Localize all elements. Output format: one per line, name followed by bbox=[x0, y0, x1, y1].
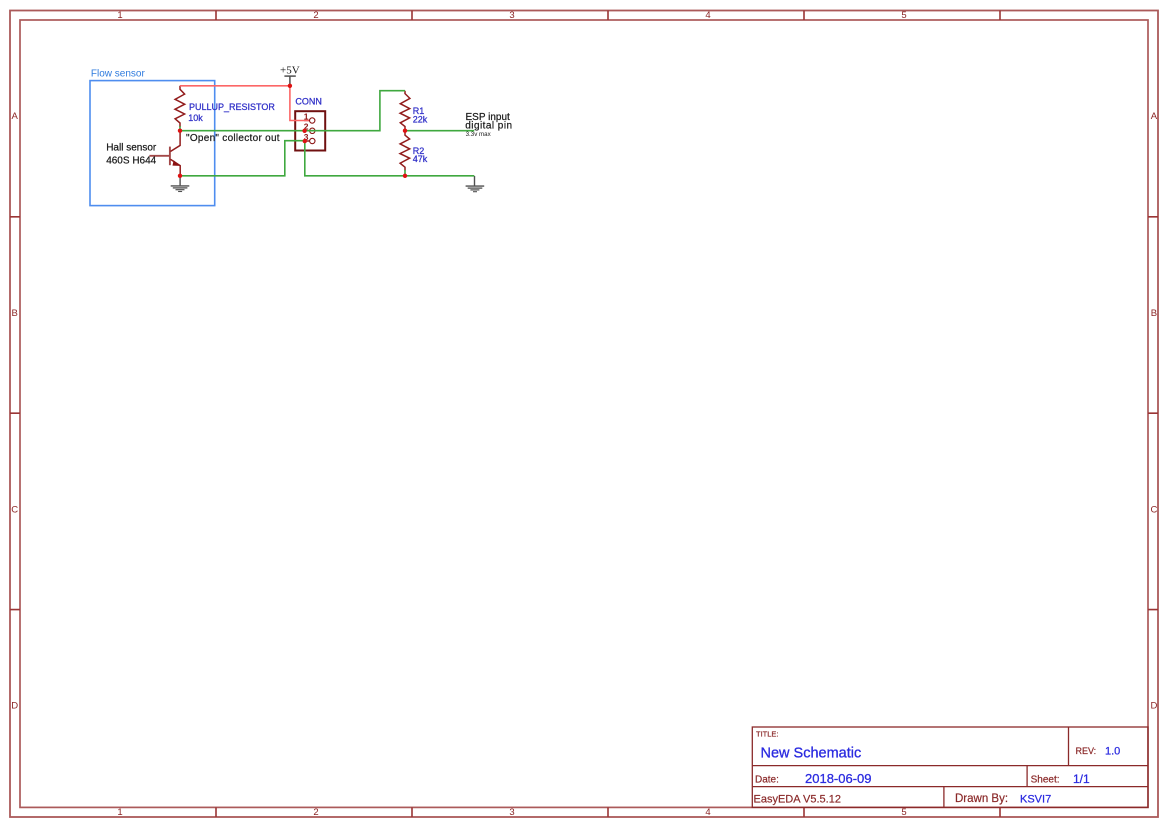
svg-text:2: 2 bbox=[313, 10, 318, 21]
column numbers bottom bbox=[117, 807, 906, 818]
connector CONN box bbox=[295, 111, 325, 150]
svg-text:B: B bbox=[1151, 308, 1157, 319]
wire divider junction to ESP pin bbox=[405, 130, 474, 132]
svg-text:3.3v max: 3.3v max bbox=[466, 131, 492, 138]
row letters right bbox=[1150, 111, 1157, 711]
resistor R2 47k bbox=[400, 131, 410, 171]
wire +5V rail (red) bbox=[180, 85, 290, 87]
wire stub pullup bottom to junction bbox=[179, 126, 181, 131]
svg-text:3: 3 bbox=[509, 10, 514, 21]
resistor PULLUP_RESISTOR 10k bbox=[175, 86, 185, 127]
svg-text:D: D bbox=[11, 700, 18, 711]
svg-text:D: D bbox=[1150, 700, 1157, 711]
wire +5V to pin1 (red) bbox=[290, 86, 309, 121]
svg-text:460S H644: 460S H644 bbox=[106, 156, 156, 167]
svg-text:A: A bbox=[12, 111, 19, 122]
junction dot pin3 bbox=[303, 139, 307, 143]
svg-text:3: 3 bbox=[509, 807, 514, 818]
row ticks right bbox=[1148, 217, 1158, 610]
svg-text:Date:: Date: bbox=[755, 775, 779, 786]
svg-text:2: 2 bbox=[313, 807, 318, 818]
column numbers top bbox=[117, 10, 906, 21]
wire net pin2 (collector to conn and up to R1 top) bbox=[180, 91, 405, 131]
svg-text:47k: 47k bbox=[413, 154, 428, 164]
svg-text:Drawn By:: Drawn By: bbox=[955, 793, 1008, 805]
column ticks top bbox=[216, 11, 1000, 21]
svg-text:1.0: 1.0 bbox=[1105, 745, 1120, 757]
svg-text:1: 1 bbox=[117, 807, 122, 818]
wire emitter to pin3 bbox=[180, 141, 305, 176]
svg-text:+5V: +5V bbox=[280, 65, 300, 77]
svg-text:REV:: REV: bbox=[1076, 746, 1097, 756]
svg-text:New Schematic: New Schematic bbox=[761, 745, 862, 761]
svg-text:1/1: 1/1 bbox=[1073, 772, 1090, 786]
svg-text:Sheet:: Sheet: bbox=[1031, 775, 1060, 786]
wire stub R2 bottom to junction bbox=[404, 170, 406, 176]
svg-text:Hall sensor: Hall sensor bbox=[106, 143, 157, 154]
svg-text:4: 4 bbox=[705, 807, 710, 818]
pin 2 bbox=[304, 122, 315, 134]
svg-text:EasyEDA V5.5.12: EasyEDA V5.5.12 bbox=[754, 794, 841, 806]
pin 1 bbox=[304, 111, 315, 123]
ground (emitter) bbox=[171, 178, 190, 192]
junction dot R2 bottom bbox=[403, 174, 407, 178]
column ticks bottom bbox=[216, 807, 1000, 817]
ground (right rail) bbox=[466, 176, 485, 192]
frame-box Flow sensor bbox=[90, 81, 215, 206]
power flag +5V bbox=[284, 76, 295, 84]
svg-text:KSVI7: KSVI7 bbox=[1020, 793, 1051, 805]
junction dot collector bbox=[178, 129, 182, 133]
wire pin3 down to ground rail bbox=[305, 141, 475, 176]
svg-text:PULLUP_RESISTOR: PULLUP_RESISTOR bbox=[189, 102, 275, 112]
svg-text:5: 5 bbox=[901, 807, 906, 818]
svg-text:C: C bbox=[11, 505, 18, 516]
junction dot pin2 bbox=[302, 129, 306, 133]
junction dot +5V bbox=[288, 84, 292, 88]
svg-text:Flow sensor: Flow sensor bbox=[91, 68, 146, 79]
junction dot emitter bbox=[178, 174, 182, 178]
title block frame bbox=[752, 727, 1148, 807]
svg-text:10k: 10k bbox=[188, 113, 203, 123]
svg-text:CONN: CONN bbox=[295, 96, 322, 106]
svg-text:C: C bbox=[1150, 505, 1157, 516]
svg-text:"Open" collector out: "Open" collector out bbox=[186, 133, 280, 144]
svg-text:B: B bbox=[12, 308, 18, 319]
svg-text:2018-06-09: 2018-06-09 bbox=[805, 771, 872, 786]
svg-text:5: 5 bbox=[901, 10, 906, 21]
svg-text:22k: 22k bbox=[413, 114, 428, 124]
row letters left bbox=[11, 111, 18, 711]
svg-text:4: 4 bbox=[705, 10, 710, 21]
svg-text:A: A bbox=[1151, 111, 1158, 122]
row ticks left bbox=[10, 217, 20, 610]
junction dot R1-R2 bbox=[403, 129, 407, 133]
svg-text:TITLE:: TITLE: bbox=[756, 730, 779, 739]
transistor Q1 hall sensor NPN bbox=[149, 133, 180, 176]
svg-text:1: 1 bbox=[117, 10, 122, 21]
pin 3 bbox=[304, 132, 315, 144]
resistor R1 22k bbox=[400, 91, 410, 131]
